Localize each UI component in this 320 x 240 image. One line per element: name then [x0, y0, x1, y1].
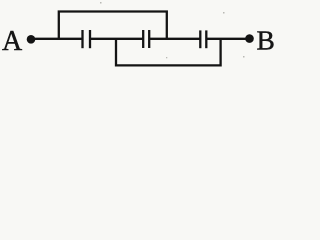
capacitor C1 right plate — [89, 30, 91, 48]
capacitor C2 right plate — [148, 30, 150, 48]
svg-text:A: A — [2, 26, 23, 57]
svg-text:B: B — [257, 25, 275, 56]
node A junction dot — [27, 35, 36, 44]
wire capacitor C2 to capacitor C3 — [149, 38, 200, 40]
capacitor C3 right plate — [205, 30, 207, 48]
capacitor C1 left plate — [81, 30, 83, 48]
wire bottom bypass loop (left leg, bottom run, right leg) — [116, 39, 221, 66]
wire top bypass loop (left leg, top run, right leg) — [59, 12, 167, 39]
wire capacitor C3 to node B — [206, 38, 249, 40]
wire capacitor C1 to capacitor C2 — [90, 38, 143, 40]
wire node A to capacitor C1 — [31, 38, 83, 40]
capacitor C3 left plate — [199, 30, 201, 48]
node B junction dot — [245, 34, 254, 43]
scan specks (noise) — [100, 2, 245, 58]
capacitor C2 left plate — [142, 30, 144, 48]
